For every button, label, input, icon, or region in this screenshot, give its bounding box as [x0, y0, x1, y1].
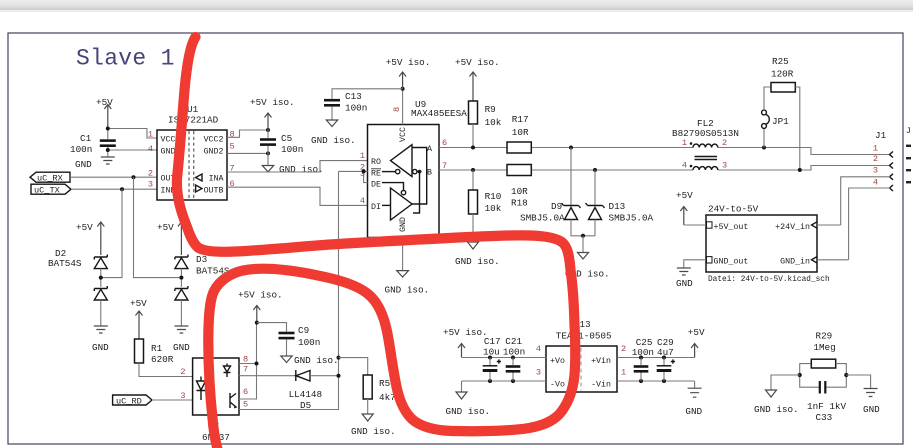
svg-text:D9: D9 — [551, 201, 562, 212]
svg-text:C5: C5 — [281, 133, 292, 144]
svg-text:100n: 100n — [281, 144, 303, 155]
svg-text:D3: D3 — [196, 254, 207, 265]
svg-text:3: 3 — [148, 180, 153, 190]
svg-text:GND_out: GND_out — [714, 258, 749, 267]
svg-text:GND: GND — [92, 342, 109, 353]
svg-text:OUTB: OUTB — [204, 187, 224, 196]
svg-text:ISO7221AD: ISO7221AD — [168, 115, 219, 126]
svg-text:1: 1 — [621, 368, 626, 378]
svg-text:GND iso.: GND iso. — [385, 285, 430, 296]
svg-text:10R: 10R — [512, 127, 529, 138]
svg-text:R29: R29 — [816, 331, 833, 342]
svg-text:+5V iso.: +5V iso. — [386, 57, 431, 68]
svg-text:100n: 100n — [632, 347, 654, 358]
svg-text:uC_RD: uC_RD — [116, 396, 142, 406]
svg-text:-Vo: -Vo — [550, 381, 565, 390]
svg-text:INA: INA — [209, 175, 224, 184]
svg-text:+5V: +5V — [96, 97, 113, 108]
svg-text:1: 1 — [148, 130, 153, 140]
svg-text:C17: C17 — [484, 336, 501, 347]
svg-text:R25: R25 — [772, 56, 789, 67]
svg-text:R10: R10 — [485, 191, 502, 202]
svg-text:+5V: +5V — [76, 222, 93, 233]
svg-text:SMBJ5.0A: SMBJ5.0A — [609, 213, 654, 224]
svg-text:C21: C21 — [505, 336, 522, 347]
svg-text:VCC2: VCC2 — [204, 135, 224, 144]
svg-text:J1: J1 — [875, 130, 887, 141]
svg-text:1nF 1kV: 1nF 1kV — [807, 401, 846, 412]
svg-text:GND iso.: GND iso. — [279, 164, 324, 175]
svg-text:GND: GND — [676, 278, 693, 289]
svg-text:Datei: 24V-to-5V.kicad_sch: Datei: 24V-to-5V.kicad_sch — [708, 276, 830, 284]
svg-text:+24V_in: +24V_in — [775, 222, 810, 232]
svg-text:JP1: JP1 — [772, 116, 789, 127]
svg-text:+5V: +5V — [676, 190, 693, 201]
svg-text:4: 4 — [873, 178, 878, 188]
svg-text:MAX485EESA: MAX485EESA — [411, 108, 467, 119]
svg-text:R18: R18 — [511, 198, 528, 209]
svg-text:C13: C13 — [345, 91, 362, 102]
svg-text:TEA 1-0505: TEA 1-0505 — [556, 331, 612, 342]
svg-text:100n: 100n — [70, 144, 92, 155]
svg-text:2: 2 — [621, 344, 626, 354]
svg-text:100n: 100n — [345, 103, 367, 114]
svg-text:120R: 120R — [771, 69, 794, 80]
svg-text:R17: R17 — [512, 114, 529, 125]
svg-text:24V-to-5V: 24V-to-5V — [708, 204, 759, 215]
svg-text:100n: 100n — [503, 347, 525, 358]
svg-text:620R: 620R — [151, 354, 174, 365]
svg-text:8: 8 — [230, 130, 235, 140]
svg-text:DE: DE — [371, 181, 381, 190]
svg-text:2: 2 — [180, 367, 185, 377]
svg-text:4: 4 — [682, 161, 687, 171]
svg-text:4: 4 — [148, 144, 153, 154]
svg-text:RO: RO — [371, 158, 381, 167]
svg-text:A: A — [427, 145, 432, 154]
svg-text:GND iso.: GND iso. — [294, 355, 339, 366]
svg-text:GND: GND — [399, 217, 408, 232]
svg-text:4: 4 — [360, 196, 365, 206]
svg-text:10u: 10u — [483, 347, 500, 358]
svg-text:7: 7 — [243, 365, 248, 375]
svg-text:RE: RE — [371, 170, 381, 179]
svg-text:J: J — [906, 127, 911, 136]
svg-text:uC_RX: uC_RX — [37, 174, 63, 184]
svg-text:3: 3 — [536, 368, 541, 378]
svg-text:GND iso.: GND iso. — [351, 426, 396, 437]
svg-text:3: 3 — [873, 166, 878, 176]
svg-text:GND iso.: GND iso. — [311, 135, 356, 146]
svg-text:2: 2 — [722, 138, 727, 148]
svg-text:R9: R9 — [485, 104, 496, 115]
svg-text:10k: 10k — [485, 203, 502, 214]
svg-text:8: 8 — [392, 107, 402, 112]
svg-text:4: 4 — [536, 344, 541, 354]
svg-text:D13: D13 — [609, 201, 626, 212]
svg-text:D5: D5 — [300, 400, 311, 411]
svg-text:GND2: GND2 — [204, 147, 224, 156]
svg-text:C1: C1 — [80, 133, 92, 144]
svg-text:1: 1 — [682, 138, 687, 148]
svg-text:C33: C33 — [816, 412, 833, 423]
svg-text:GND iso.: GND iso. — [754, 404, 799, 415]
svg-text:10k: 10k — [485, 117, 502, 128]
svg-text:Slave 1: Slave 1 — [76, 46, 175, 72]
svg-text:3: 3 — [180, 391, 185, 401]
svg-text:VCC: VCC — [399, 127, 408, 142]
svg-text:+5V iso.: +5V iso. — [455, 57, 500, 68]
svg-text:LL4148: LL4148 — [289, 389, 322, 400]
svg-text:U1: U1 — [187, 104, 199, 115]
svg-text:B: B — [427, 169, 432, 178]
svg-text:BAT54S: BAT54S — [48, 258, 82, 269]
svg-text:2: 2 — [873, 154, 878, 164]
svg-text:1: 1 — [360, 151, 365, 161]
svg-text:+5V: +5V — [688, 327, 705, 338]
svg-text:+Vo: +Vo — [550, 357, 565, 366]
svg-text:DI: DI — [371, 203, 381, 212]
svg-text:GND_in: GND_in — [780, 257, 810, 267]
svg-text:+5V: +5V — [130, 298, 147, 309]
svg-text:R1: R1 — [151, 343, 163, 354]
svg-text:+5V iso.: +5V iso. — [250, 97, 295, 108]
svg-text:+5V iso.: +5V iso. — [238, 290, 283, 301]
svg-text:2: 2 — [148, 169, 153, 179]
svg-text:10R: 10R — [511, 186, 528, 197]
svg-text:R5: R5 — [379, 378, 390, 389]
svg-text:1Meg: 1Meg — [813, 342, 835, 353]
svg-text:4u7: 4u7 — [657, 347, 674, 358]
svg-text:1: 1 — [873, 144, 878, 154]
svg-text:GND: GND — [863, 404, 880, 415]
svg-text:GND iso.: GND iso. — [446, 406, 491, 417]
svg-text:GND: GND — [685, 406, 702, 417]
svg-text:GND: GND — [173, 342, 190, 353]
svg-text:6: 6 — [243, 387, 248, 397]
svg-text:5: 5 — [230, 142, 235, 152]
svg-text:-Vin: -Vin — [591, 380, 611, 390]
svg-text:SMBJ5.0A: SMBJ5.0A — [520, 213, 565, 224]
svg-text:+5V iso.: +5V iso. — [443, 327, 488, 338]
svg-text:C9: C9 — [298, 325, 309, 336]
svg-text:uC_TX: uC_TX — [34, 186, 60, 196]
svg-text:GND: GND — [75, 159, 92, 170]
svg-text:+5V_out: +5V_out — [714, 223, 749, 232]
svg-text:5: 5 — [243, 400, 248, 410]
svg-text:100n: 100n — [298, 337, 320, 348]
svg-text:+Vin: +Vin — [591, 356, 611, 366]
svg-text:GND iso.: GND iso. — [455, 256, 500, 267]
svg-text:6: 6 — [442, 138, 447, 148]
svg-text:+5V: +5V — [157, 222, 174, 233]
svg-text:3: 3 — [722, 161, 727, 171]
